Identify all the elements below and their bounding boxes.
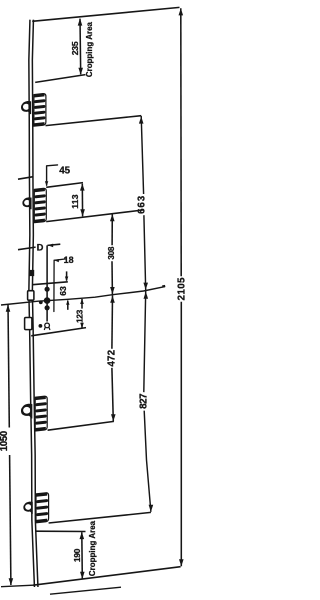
- svg-text:45: 45: [59, 165, 70, 176]
- svg-text:123: 123: [76, 309, 85, 323]
- svg-text:1050: 1050: [0, 430, 10, 451]
- svg-text:2105: 2105: [177, 277, 188, 300]
- svg-text:190: 190: [72, 548, 82, 562]
- svg-text:472: 472: [106, 349, 117, 366]
- svg-text:Cropping Area: Cropping Area: [85, 21, 94, 77]
- svg-text:308: 308: [107, 246, 116, 260]
- svg-text:235: 235: [70, 41, 80, 55]
- svg-text:63: 63: [58, 286, 68, 296]
- svg-text:18: 18: [64, 255, 74, 265]
- svg-text:113: 113: [70, 194, 80, 208]
- svg-text:D: D: [37, 242, 44, 253]
- svg-text:827: 827: [139, 393, 150, 409]
- svg-text:Cropping Area: Cropping Area: [88, 520, 97, 576]
